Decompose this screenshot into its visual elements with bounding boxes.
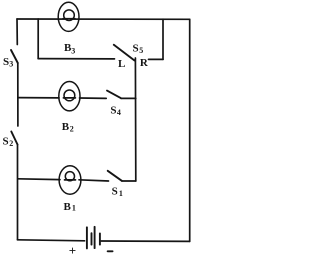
label plus — [69, 243, 76, 256]
wire branch B3-L vertical — [37, 19, 39, 59]
switch S4 blade — [107, 91, 121, 99]
wire row3 mid segment (B1 to S1) — [79, 180, 109, 181]
wire row3 right segment (S1 to pole corner) — [122, 180, 136, 182]
svg-text:B: B — [62, 121, 70, 133]
wire left vertical middle (S3 to S2) — [17, 63, 19, 126]
svg-text:S: S — [3, 135, 9, 147]
svg-text:S: S — [133, 43, 139, 55]
svg-text:S: S — [112, 186, 118, 198]
wire S5 pole vertical — [134, 58, 136, 181]
label minus — [108, 250, 113, 252]
svg-text:B: B — [64, 201, 72, 213]
svg-text:S: S — [110, 105, 116, 117]
switch S2 blade — [11, 132, 17, 145]
label S4 — [110, 105, 121, 117]
wire R contact horizontal — [149, 58, 164, 60]
wire bottom left segment — [18, 240, 85, 241]
wire left vertical upper (top corner to S3) — [16, 19, 18, 45]
svg-text:+: + — [69, 243, 76, 256]
wire right vertical — [189, 19, 191, 241]
svg-text:5: 5 — [139, 46, 143, 55]
svg-text:S: S — [3, 56, 9, 68]
svg-text:2: 2 — [70, 125, 74, 134]
label B2 — [62, 121, 74, 133]
wire row2 left segment — [18, 97, 59, 99]
wire top horizontal — [17, 18, 190, 20]
lamp B3 — [58, 2, 79, 31]
svg-text:R: R — [140, 57, 149, 69]
svg-text:4: 4 — [117, 108, 121, 117]
label B1 — [64, 201, 76, 213]
lamp B1 — [59, 166, 81, 194]
label R — [140, 57, 149, 69]
wire row2 mid segment (B2 to S4) — [80, 97, 107, 99]
wire row2 right segment (S4 to pole) — [121, 97, 136, 99]
wire R branch vertical — [162, 19, 164, 59]
wire left vertical lower (S2 to bottom corner) — [17, 145, 19, 240]
switch S3 blade — [11, 50, 18, 63]
label B3 — [64, 42, 75, 55]
svg-text:1: 1 — [119, 189, 123, 198]
label L — [118, 58, 125, 70]
switch S5 blade — [114, 45, 135, 61]
wire L contact horizontal — [38, 58, 114, 60]
svg-text:2: 2 — [9, 139, 13, 148]
label S3 — [3, 56, 13, 69]
label S5 — [133, 43, 144, 56]
switch S1 blade — [108, 171, 122, 181]
wire row3 left segment — [18, 178, 60, 181]
label S1 — [112, 186, 123, 198]
svg-text:3: 3 — [71, 46, 75, 55]
svg-text:L: L — [118, 58, 125, 70]
wire bottom right segment — [101, 240, 190, 242]
label S2 — [3, 135, 14, 148]
svg-text:1: 1 — [72, 204, 76, 213]
svg-text:3: 3 — [9, 60, 13, 69]
battery cells — [87, 227, 100, 249]
lamp B2 — [59, 82, 80, 111]
